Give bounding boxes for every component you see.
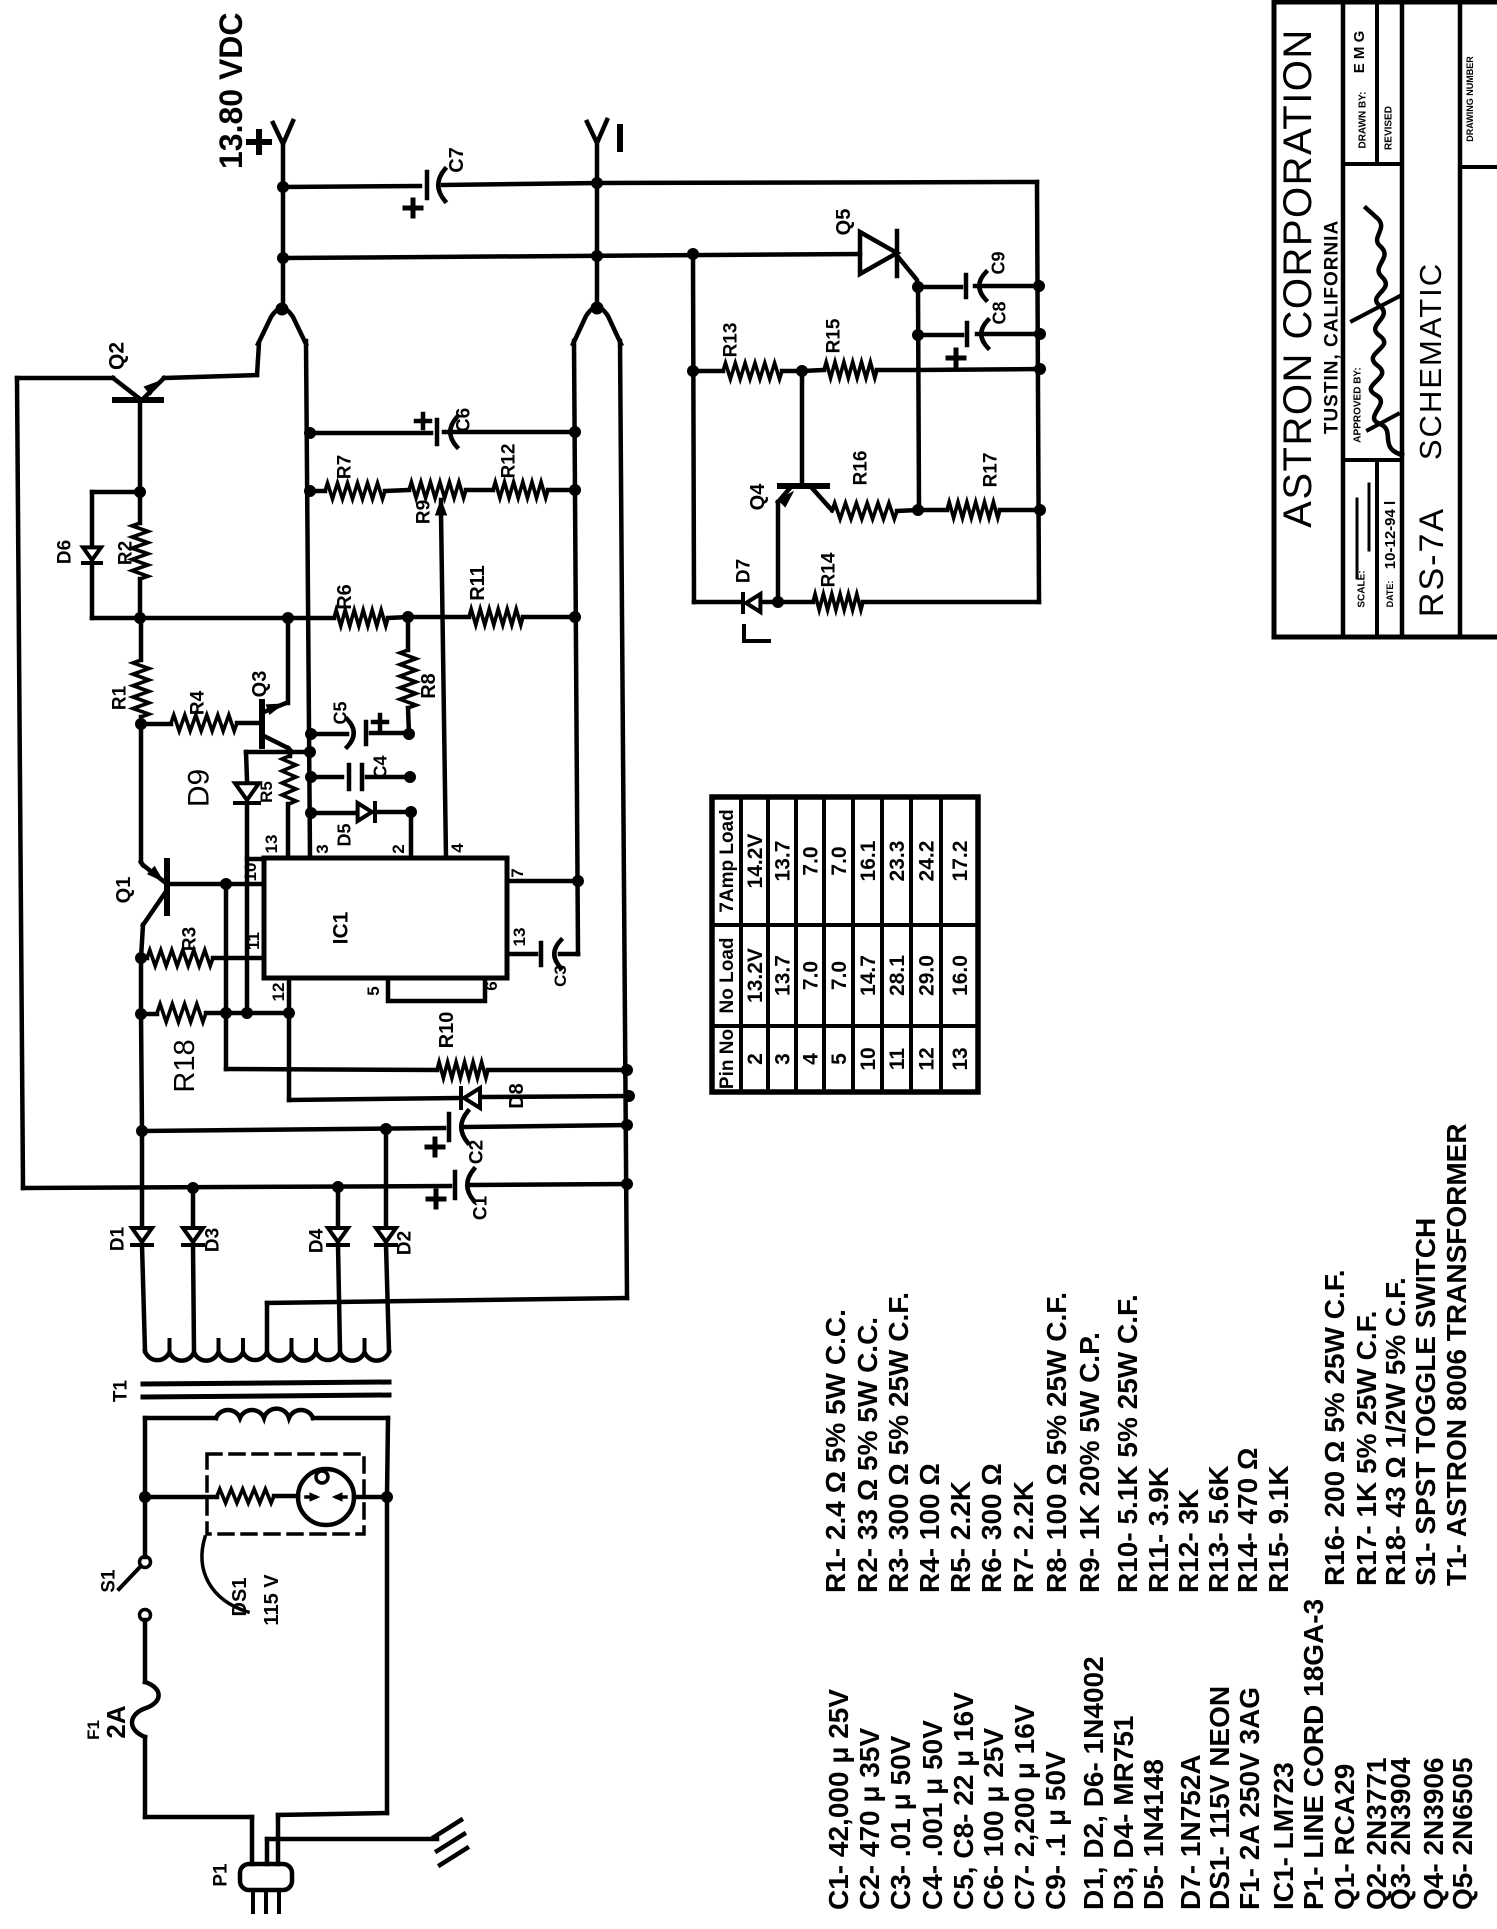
svg-text:D3, D4- MR751: D3, D4- MR751 xyxy=(1108,1715,1139,1910)
wire to S1 xyxy=(143,1497,148,1557)
wire R18 to pin12 xyxy=(226,1011,289,1016)
svg-text:D7- 1N752A: D7- 1N752A xyxy=(1175,1754,1206,1910)
plus sign of C8 xyxy=(948,356,964,361)
wire R13 rail xyxy=(693,369,723,374)
diode D8 xyxy=(464,1088,480,1108)
node DS1 left xyxy=(140,1492,151,1503)
wire C6 rail xyxy=(310,431,431,436)
svg-text:12: 12 xyxy=(269,983,288,1002)
node R2 bottom on R6 rail xyxy=(135,613,146,624)
svg-text:C1: C1 xyxy=(471,1195,492,1220)
wire S1 to F1 xyxy=(143,1620,148,1682)
fuse F1 xyxy=(132,1682,159,1737)
wire primary right xyxy=(313,1416,388,1421)
svg-text:E M G: E M G xyxy=(1351,31,1368,74)
wire crowbar bottom left xyxy=(694,600,740,605)
transistor Q1 xyxy=(164,861,170,913)
capacitor C4 xyxy=(347,765,352,789)
wire R9 wiper to IC1 pin4 xyxy=(441,512,446,858)
svg-text:D3: D3 xyxy=(203,1228,224,1252)
svg-text:R1: R1 xyxy=(110,685,131,710)
svg-text:13.7: 13.7 xyxy=(771,841,794,882)
node C1 rail at D3 xyxy=(188,1183,199,1194)
plus sign at + output terminal xyxy=(249,139,269,145)
svg-text:115 V: 115 V xyxy=(261,1574,283,1626)
node R13 left xyxy=(688,366,699,377)
pointer arc DS1 xyxy=(202,1537,248,1612)
svg-text:C4- .001 μ 50V: C4- .001 μ 50V xyxy=(917,1720,948,1910)
wire F1 to plug xyxy=(143,1737,148,1817)
svg-text:R9: R9 xyxy=(414,500,435,524)
svg-text:C7: C7 xyxy=(446,147,468,173)
resistor R6 xyxy=(334,610,388,626)
svg-text:R9- 1K 20% 5W C.P.: R9- 1K 20% 5W C.P. xyxy=(1074,1332,1105,1593)
capacitor C3 xyxy=(539,943,544,965)
diode D6 xyxy=(83,547,101,560)
wire D9 hang corner xyxy=(246,752,247,780)
node second rail at x597 xyxy=(592,251,603,262)
svg-text:Q4: Q4 xyxy=(747,483,769,511)
wire C4 xyxy=(311,775,342,780)
node C8 left xyxy=(913,330,924,341)
node C6 rail right xyxy=(570,427,581,438)
wire x141 R3 to R18 xyxy=(139,958,144,1014)
svg-text:R3- 300 Ω 5% 25W C.F.: R3- 300 Ω 5% 25W C.F. xyxy=(883,1292,914,1593)
IC1 pin5-6 tab xyxy=(388,978,485,1001)
svg-text:S1- SPST TOGGLE SWITCH: S1- SPST TOGGLE SWITCH xyxy=(1410,1218,1441,1586)
title block frame xyxy=(1272,2,1277,637)
svg-text:Q5- 2N6505: Q5- 2N6505 xyxy=(1447,1757,1478,1910)
svg-text:5: 5 xyxy=(364,986,383,995)
svg-text:13.80 VDC: 13.80 VDC xyxy=(213,12,249,169)
svg-text:R12- 3K: R12- 3K xyxy=(1173,1489,1204,1593)
wire D8 to bus xyxy=(482,1096,629,1097)
resistor R13 xyxy=(723,363,782,379)
transistor Q4 xyxy=(780,483,827,489)
resistor R14 xyxy=(813,594,863,610)
wire Q3 emitter up to R6 rail xyxy=(286,618,291,703)
resistor R3 xyxy=(141,956,147,961)
diode D5 xyxy=(358,803,372,821)
node bus at D5 wire xyxy=(306,808,317,819)
svg-text:R15: R15 xyxy=(824,318,845,353)
transformer primary winding xyxy=(216,1409,313,1418)
transistor Q3 xyxy=(259,702,265,746)
node R1 bottom R4 junction xyxy=(136,719,147,730)
svg-text:R16: R16 xyxy=(851,451,872,486)
resistor R15 xyxy=(824,362,877,378)
wire R7 rail xyxy=(310,489,325,494)
wire x141 around Q1 xyxy=(141,862,143,865)
node R13-R15 junction xyxy=(797,366,808,377)
wire pin12 vertical xyxy=(287,978,292,1100)
svg-text:R17- 1K 5% 25W C.F.: R17- 1K 5% 25W C.F. xyxy=(1351,1311,1382,1586)
svg-text:11: 11 xyxy=(886,1048,909,1071)
wire - terminal stem to tent xyxy=(595,183,600,307)
svg-text:7.0: 7.0 xyxy=(828,846,851,875)
svg-text:D7: D7 xyxy=(734,559,755,583)
svg-text:Q4- 2N3906: Q4- 2N3906 xyxy=(1418,1757,1449,1910)
switch S1 xyxy=(140,1557,151,1568)
capacitor C9 xyxy=(964,275,969,297)
node C1 rail at D4 xyxy=(333,1182,344,1193)
wire IC1 pin7 xyxy=(507,879,578,884)
svg-text:No Load: No Load xyxy=(717,938,738,1014)
svg-text:13: 13 xyxy=(262,835,281,854)
svg-text:Q1- RCA29: Q1- RCA29 xyxy=(1329,1764,1360,1910)
node R16-R17 junction xyxy=(913,505,924,516)
diode D3 xyxy=(191,1188,196,1227)
svg-text:R11: R11 xyxy=(467,565,489,601)
resistor R8 xyxy=(406,617,411,650)
node bus at C6 rail xyxy=(305,428,316,439)
svg-text:R6- 300 Ω: R6- 300 Ω xyxy=(976,1463,1007,1593)
plus sign of C2 xyxy=(427,1145,443,1150)
node at + terminal and C7 wire xyxy=(278,182,289,193)
svg-text:6: 6 xyxy=(482,981,501,990)
wire Q5 block left vertical xyxy=(693,254,694,602)
wire R16 R17 link xyxy=(918,508,947,513)
wire D9 cathode to IC1 corner xyxy=(245,803,250,857)
SCR Q5 xyxy=(860,232,897,274)
wiper arrow of R9 xyxy=(436,500,447,515)
svg-text:C3: C3 xyxy=(551,965,570,987)
svg-text:7: 7 xyxy=(508,868,527,877)
wire pin12 elbow to D8 rail xyxy=(289,1098,458,1100)
node Q3 emitter on R6 rail xyxy=(283,613,294,624)
table pin voltages grid xyxy=(712,797,978,1092)
transformer core lines xyxy=(143,1382,389,1384)
wire C3 to x578 xyxy=(560,952,578,957)
node R15 at bus xyxy=(1035,364,1046,375)
signature xyxy=(1366,208,1402,455)
svg-text:D4: D4 xyxy=(307,1228,328,1253)
wire right side down to plug xyxy=(385,1497,390,1813)
svg-text:T1- ASTRON 8006 TRANSFORMER: T1- ASTRON 8006 TRANSFORMER xyxy=(1441,1123,1472,1586)
wire ground pin xyxy=(265,1839,270,1864)
svg-text:DATE:: DATE: xyxy=(1385,581,1395,608)
diode D2 xyxy=(384,1129,389,1227)
plus sign of C6 xyxy=(416,419,430,424)
node R17 at bus xyxy=(1035,505,1046,516)
DS1 dashed box xyxy=(207,1454,364,1534)
resistor R17 xyxy=(947,502,1000,518)
svg-text:R1- 2.4 Ω 5% 5W C.C.: R1- 2.4 Ω 5% 5W C.C. xyxy=(820,1309,851,1593)
wire DS1 resistor to bulb xyxy=(274,1494,298,1499)
svg-text:28.1: 28.1 xyxy=(886,955,909,996)
node R18 wire x226 xyxy=(221,1008,232,1019)
wire C1 rail xyxy=(23,1186,450,1188)
node C2 rail x141 xyxy=(137,1126,148,1137)
svg-text:R16- 200 Ω 5% 25W C.F.: R16- 200 Ω 5% 25W C.F. xyxy=(1319,1269,1350,1586)
diode D1 xyxy=(140,1131,145,1227)
svg-text:C5, C8- 22 μ 16V: C5, C8- 22 μ 16V xyxy=(948,1692,979,1910)
svg-text:P1- LINE CORD 18GA-3: P1- LINE CORD 18GA-3 xyxy=(1298,1599,1329,1910)
svg-text:R7: R7 xyxy=(335,455,356,479)
svg-text:C9- .1 μ 50V: C9- .1 μ 50V xyxy=(1040,1751,1071,1910)
svg-text:2: 2 xyxy=(744,1053,767,1065)
- output terminal xyxy=(587,120,607,143)
node Q4 emitter bottom xyxy=(773,597,784,608)
svg-text:R10: R10 xyxy=(436,1012,458,1049)
svg-text:C2: C2 xyxy=(467,1140,488,1164)
svg-text:Pin No: Pin No xyxy=(717,1029,738,1089)
svg-text:RS-7A: RS-7A xyxy=(1413,507,1451,617)
svg-text:5: 5 xyxy=(828,1053,851,1065)
svg-text:10: 10 xyxy=(241,863,260,882)
minus sign at - output terminal xyxy=(617,127,623,149)
wire D5 xyxy=(311,811,356,816)
node C9 at bus xyxy=(1034,281,1045,292)
node D8 at bus xyxy=(624,1091,635,1102)
capacitor C2 xyxy=(447,1114,452,1140)
diode D7 xyxy=(746,594,760,612)
wire branch to D6 xyxy=(92,490,140,495)
wire x141 down to C2 rail xyxy=(141,1014,142,1131)
svg-text:C4: C4 xyxy=(370,755,390,778)
plus sign of C7 xyxy=(405,206,421,211)
svg-text:Q3- 2N3904: Q3- 2N3904 xyxy=(1385,1757,1416,1910)
tent node right xyxy=(591,302,603,314)
resistor R5 xyxy=(288,752,293,756)
wire center tap rail xyxy=(267,1298,627,1303)
svg-text:C2- 470 μ 35V: C2- 470 μ 35V xyxy=(854,1728,885,1910)
svg-text:14.7: 14.7 xyxy=(857,955,880,996)
svg-text:D1, D2, D6- 1N4002: D1, D2, D6- 1N4002 xyxy=(1078,1656,1109,1910)
wire C9 rail xyxy=(918,285,961,290)
svg-text:7Amp Load: 7Amp Load xyxy=(717,809,738,912)
svg-text:3: 3 xyxy=(313,844,332,853)
svg-text:R4- 100 Ω: R4- 100 Ω xyxy=(914,1463,945,1593)
svg-text:C7- 2,200 μ 16V: C7- 2,200 μ 16V xyxy=(1009,1704,1040,1910)
svg-text:D6: D6 xyxy=(55,540,76,564)
transistor Q2 xyxy=(113,378,140,399)
svg-text:R13: R13 xyxy=(721,323,742,358)
diode D4 xyxy=(336,1187,341,1227)
ground symbol xyxy=(434,1820,461,1837)
svg-text:C6- 100 μ 25V: C6- 100 μ 25V xyxy=(978,1728,1009,1910)
+ output terminal xyxy=(273,121,293,144)
scale blank lines xyxy=(1368,484,1371,550)
resistor R1 xyxy=(139,618,144,660)
node DS1 right xyxy=(382,1492,393,1503)
node gate x918 xyxy=(913,282,924,293)
node C4 right xyxy=(405,772,416,783)
node R18 wire x289 xyxy=(284,1008,295,1019)
svg-text:R10- 5.1K 5% 25W C.F.: R10- 5.1K 5% 25W C.F. xyxy=(1112,1294,1143,1593)
svg-text:DRAWN BY:: DRAWN BY: xyxy=(1358,91,1369,148)
svg-text:16.0: 16.0 xyxy=(949,955,972,996)
svg-text:24.2: 24.2 xyxy=(915,841,938,882)
node D5 right xyxy=(406,807,417,818)
wire C8 rail xyxy=(918,333,962,338)
node bus at R7 rail xyxy=(305,486,316,497)
node second rail at x693 xyxy=(688,249,699,260)
node C2 rail at D2 xyxy=(381,1124,392,1135)
wire D6 to R6 rail xyxy=(90,563,95,618)
gate bracket xyxy=(744,626,769,641)
svg-text:7.0: 7.0 xyxy=(828,961,851,990)
plus sign of C5 xyxy=(373,720,387,725)
svg-text:R14: R14 xyxy=(819,552,840,587)
svg-text:10-12-94 l: 10-12-94 l xyxy=(1382,501,1399,569)
svg-text:R4: R4 xyxy=(188,690,209,715)
svg-text:T1: T1 xyxy=(111,1379,132,1402)
node C1 at bus xyxy=(622,1179,633,1190)
secondary winding cusp ticks xyxy=(168,1340,172,1352)
svg-text:7.0: 7.0 xyxy=(799,846,822,875)
svg-text:C8: C8 xyxy=(989,301,1009,324)
wire D7 to R14 xyxy=(762,600,813,605)
capacitor C6 xyxy=(435,420,440,444)
node R6 rail at x575 xyxy=(570,612,581,623)
node R10 at bus xyxy=(622,1065,633,1076)
svg-text:P1: P1 xyxy=(211,1863,232,1887)
svg-text:13.2V: 13.2V xyxy=(744,948,767,1003)
node R7 rail right xyxy=(570,485,581,496)
svg-text:R5- 2.2K: R5- 2.2K xyxy=(945,1481,976,1593)
svg-text:D1: D1 xyxy=(108,1226,129,1251)
wire IC1 pin13 to C3 xyxy=(507,952,536,957)
wire + terminal stem to tent xyxy=(281,187,286,308)
node second rail at x283 xyxy=(278,253,289,264)
svg-text:F1- 2A 250V 3AG: F1- 2A 250V 3AG xyxy=(1234,1687,1265,1910)
IC U1 box IC1 xyxy=(264,858,507,978)
wire DS1 left xyxy=(145,1495,217,1500)
svg-text:2A: 2A xyxy=(101,1705,131,1738)
node C8 at bus xyxy=(1035,329,1046,340)
svg-text:REVISED: REVISED xyxy=(1384,106,1395,150)
svg-text:12: 12 xyxy=(915,1047,938,1070)
node pin7 x578 xyxy=(573,876,584,887)
wire Q2 emitter to tent xyxy=(164,375,257,378)
wire C5 xyxy=(311,732,347,737)
svg-text:R8- 100 Ω 5% 25W C.F.: R8- 100 Ω 5% 25W C.F. xyxy=(1041,1292,1072,1593)
svg-text:R15- 9.1K: R15- 9.1K xyxy=(1263,1465,1294,1593)
svg-text:14.2V: 14.2V xyxy=(744,834,767,889)
svg-text:APPROVED BY:: APPROVED BY: xyxy=(1353,367,1364,442)
wire x226 vertical xyxy=(224,884,229,1069)
svg-text:R5: R5 xyxy=(257,781,276,803)
svg-text:R18- 43 Ω 1/2W 5% C.F.: R18- 43 Ω 1/2W 5% C.F. xyxy=(1380,1277,1411,1586)
resistor R7 xyxy=(325,483,385,499)
resistor in DS1 xyxy=(217,1489,274,1503)
node Q3 collector on bus xyxy=(305,747,316,758)
wire second rail xyxy=(283,254,860,258)
svg-text:ASTRON CORPORATION: ASTRON CORPORATION xyxy=(1276,28,1320,528)
resistor R2 xyxy=(138,492,143,523)
wire primary left xyxy=(145,1416,216,1421)
node R3 x141 xyxy=(136,953,147,964)
svg-text:R7- 2.2K: R7- 2.2K xyxy=(1008,1481,1039,1593)
svg-text:13: 13 xyxy=(949,1047,972,1070)
svg-text:C1- 42,000 μ 25V: C1- 42,000 μ 25V xyxy=(823,1689,854,1910)
wire DS1 right xyxy=(354,1495,387,1500)
svg-text:13: 13 xyxy=(510,928,529,947)
wire Q3 collector to bus xyxy=(288,748,292,752)
svg-text:R8: R8 xyxy=(418,673,440,699)
svg-text:SCHEMATIC: SCHEMATIC xyxy=(1413,262,1448,460)
wire right bus down xyxy=(1037,182,1039,602)
wire R14 to bus xyxy=(863,600,1039,605)
diode D9 xyxy=(235,783,259,800)
wire Q2 base from left loop xyxy=(17,376,113,381)
svg-text:Q5: Q5 xyxy=(833,209,855,236)
resistor R4 xyxy=(141,722,171,727)
neon bulb DS1 xyxy=(298,1469,354,1525)
plus sign of C1 xyxy=(428,1197,444,1202)
node bus at C5 wire xyxy=(306,729,317,740)
svg-text:29.0: 29.0 xyxy=(915,955,938,996)
plug P1 xyxy=(240,1864,292,1890)
svg-text:16.1: 16.1 xyxy=(857,840,880,881)
node bus at C4 wire xyxy=(306,772,317,783)
transformer T1 secondary winding xyxy=(145,1351,389,1361)
svg-text:R17: R17 xyxy=(981,453,1002,488)
svg-text:C5: C5 xyxy=(330,701,350,724)
svg-text:2: 2 xyxy=(389,844,408,853)
capacitor C7 xyxy=(425,172,430,198)
wire negative rail xyxy=(620,341,627,1298)
potentiometer R9 xyxy=(409,482,466,498)
svg-text:17.2: 17.2 xyxy=(949,841,972,882)
node pin10 wire at x226 xyxy=(221,879,232,890)
svg-text:10: 10 xyxy=(857,1047,880,1070)
svg-text:13.7: 13.7 xyxy=(771,955,794,996)
svg-text:R12: R12 xyxy=(499,444,520,479)
svg-text:R14- 470 Ω: R14- 470 Ω xyxy=(1232,1448,1263,1593)
svg-text:DS1- 115V NEON: DS1- 115V NEON xyxy=(1204,1686,1235,1910)
svg-text:TUSTIN, CALIFORNIA: TUSTIN, CALIFORNIA xyxy=(1322,220,1343,434)
svg-text:C6: C6 xyxy=(454,408,475,432)
wire Q4 base xyxy=(800,371,805,484)
svg-text:Q2: Q2 xyxy=(105,342,128,370)
wire D9 line down xyxy=(245,859,250,1013)
svg-text:R18: R18 xyxy=(169,1039,201,1092)
svg-text:IC1: IC1 xyxy=(329,911,352,944)
wire Q1 collector to IC1 pin10 xyxy=(167,882,264,887)
wire left loop vertical xyxy=(17,378,23,1188)
svg-text:R13- 5.6K: R13- 5.6K xyxy=(1203,1465,1234,1593)
resistor R11 xyxy=(469,609,523,625)
wire R6 rail xyxy=(141,616,334,621)
capacitor C5 xyxy=(364,722,369,744)
svg-text:R11- 3.9K: R11- 3.9K xyxy=(1143,1467,1174,1593)
node C2 at bus xyxy=(622,1120,633,1131)
capacitor C1 xyxy=(453,1172,458,1198)
wire top rail with C7 xyxy=(283,186,420,187)
node at - terminal and C7 wire xyxy=(592,178,603,189)
tent node left xyxy=(276,303,288,315)
resistor R10 xyxy=(437,1062,488,1078)
svg-text:IC1- LM723: IC1- LM723 xyxy=(1268,1762,1299,1910)
svg-text:Q3: Q3 xyxy=(249,671,271,698)
resistor R12 xyxy=(493,482,548,498)
svg-text:R2- 33 Ω 5% 5W C.C.: R2- 33 Ω 5% 5W C.C. xyxy=(852,1317,883,1593)
resistor R18 xyxy=(141,1012,157,1017)
wire R10 rail xyxy=(226,1069,437,1070)
wire main bus x310 xyxy=(306,341,310,858)
svg-text:4: 4 xyxy=(799,1053,822,1065)
svg-text:D5- 1N4148: D5- 1N4148 xyxy=(1138,1759,1169,1910)
wire x918 down xyxy=(918,287,919,510)
resistor R16 xyxy=(829,507,832,510)
svg-text:D5: D5 xyxy=(334,823,354,846)
svg-text:7.0: 7.0 xyxy=(799,961,822,990)
node C5 right xyxy=(404,729,415,740)
svg-text:23.3: 23.3 xyxy=(886,841,909,882)
svg-text:C3- .01 μ 50V: C3- .01 μ 50V xyxy=(885,1735,916,1910)
